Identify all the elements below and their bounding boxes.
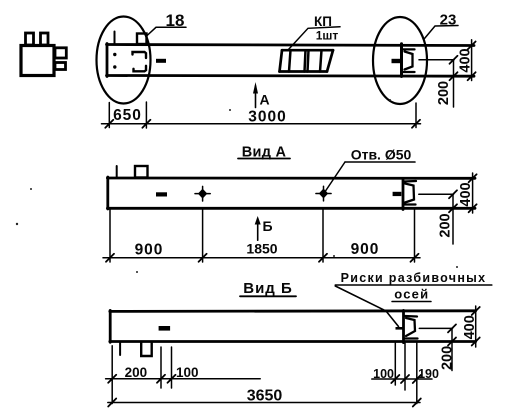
view B title underline xyxy=(240,295,296,297)
section view side lug upper xyxy=(55,48,66,58)
tick xyxy=(401,375,409,383)
svg-text:400: 400 xyxy=(457,48,473,72)
svg-text:осей: осей xyxy=(394,287,429,302)
view A beam right end xyxy=(402,180,405,210)
top view embedded dot lower xyxy=(113,65,116,68)
view B bottom lug xyxy=(141,342,152,356)
svg-text:Вид А: Вид А xyxy=(242,145,287,161)
tick xyxy=(468,72,476,80)
view B end recess keystone xyxy=(406,318,415,336)
view B dim line right xyxy=(372,378,432,380)
hole marker star 2 xyxy=(316,186,331,201)
hole marker star 1 xyxy=(195,186,210,201)
view B weld dash xyxy=(159,326,171,331)
svg-text:900: 900 xyxy=(135,242,164,259)
tick xyxy=(448,338,456,346)
view B extension left end xyxy=(111,346,113,404)
view A beam top edge xyxy=(107,177,475,180)
top view end anchor block xyxy=(392,59,401,63)
tick xyxy=(157,375,165,383)
top view embedded dot upper xyxy=(113,53,116,56)
view A extension 1850 xyxy=(322,210,324,263)
svg-text:200: 200 xyxy=(125,365,148,380)
svg-text:А: А xyxy=(260,92,270,108)
top view left top tick xyxy=(114,32,116,45)
tick xyxy=(450,56,458,64)
view B extension riska xyxy=(416,343,418,404)
dim 200 vertical top view xyxy=(453,60,455,107)
riski label underline 1 xyxy=(335,284,492,286)
view B beam top edge xyxy=(110,309,476,312)
svg-text:Вид Б: Вид Б xyxy=(243,280,293,297)
view A weld dash xyxy=(156,192,167,196)
svg-text:100: 100 xyxy=(176,365,199,380)
svg-text:190: 190 xyxy=(418,367,439,381)
svg-text:Риски разбивочных: Риски разбивочных xyxy=(341,271,487,285)
beam top view top edge xyxy=(107,45,475,46)
riski label underline 2 xyxy=(392,301,431,303)
view B extension beam end xyxy=(404,343,406,390)
top view left top lug xyxy=(137,34,147,45)
lifting wedge rib 4 xyxy=(320,50,322,71)
svg-text:400: 400 xyxy=(462,315,478,339)
svg-text:100: 100 xyxy=(373,367,394,381)
hole callout leader xyxy=(326,162,346,191)
view A top tick xyxy=(116,166,118,178)
tick xyxy=(472,338,480,346)
tick xyxy=(413,399,421,407)
dim line 400 top view xyxy=(471,40,473,81)
view B beam bottom edge xyxy=(110,340,476,343)
extension line left 650 xyxy=(108,103,110,128)
tick xyxy=(413,375,421,383)
view A extension left xyxy=(109,210,111,263)
view A beam left end xyxy=(106,177,109,209)
scan specks xyxy=(229,109,231,111)
view B extension 100 right xyxy=(394,343,396,385)
view B end recess top bar xyxy=(405,315,417,318)
view A dim line xyxy=(103,257,420,259)
hole callout underline xyxy=(345,161,415,163)
callout 23 leader xyxy=(425,26,459,39)
view A dim 200 mid line xyxy=(419,193,454,195)
top view embedded plate bottom bracket xyxy=(134,66,147,72)
top view embedded plate top bracket xyxy=(133,52,147,58)
dim line 3650 xyxy=(108,402,420,404)
svg-text:1шт: 1шт xyxy=(316,29,339,43)
tick xyxy=(319,254,327,262)
svg-text:18: 18 xyxy=(166,11,185,30)
tick xyxy=(199,254,207,262)
view B dim 400 line xyxy=(475,306,477,347)
section view body xyxy=(21,46,54,76)
svg-text:200: 200 xyxy=(437,213,453,237)
view B end recess bottom bar xyxy=(405,337,418,339)
lifting wedge KP left edge xyxy=(280,50,283,71)
dim line 650-3000 xyxy=(102,123,421,125)
lifting wedge KP top line xyxy=(282,49,333,52)
view A end anchor block xyxy=(393,192,402,196)
svg-text:650: 650 xyxy=(113,107,142,124)
detail ellipse 18 xyxy=(97,17,151,104)
tick xyxy=(106,254,114,262)
svg-text:3650: 3650 xyxy=(247,388,283,405)
svg-text:200: 200 xyxy=(436,81,452,105)
svg-text:Отв. Ø50: Отв. Ø50 xyxy=(351,147,412,163)
tick xyxy=(105,120,113,128)
view B extension 200 xyxy=(160,347,162,388)
lifting wedge KP bottom line xyxy=(280,70,328,73)
view B beam right end xyxy=(402,310,405,342)
view A extension 900 xyxy=(202,210,204,263)
view A title underline xyxy=(238,158,290,160)
view B dim line left xyxy=(106,378,261,380)
svg-text:900: 900 xyxy=(351,241,380,258)
tick xyxy=(448,324,456,332)
section view top lug left xyxy=(26,33,34,45)
callout KP leader xyxy=(288,27,340,50)
section arrow A xyxy=(255,86,257,108)
view A end recess bottom bar xyxy=(403,203,416,205)
top view weld dash xyxy=(156,59,166,63)
svg-text:1850: 1850 xyxy=(246,241,277,257)
detail ellipse 23 xyxy=(373,17,427,104)
view B beam left end xyxy=(109,310,112,342)
svg-text:23: 23 xyxy=(440,12,457,29)
view A beam bottom edge xyxy=(107,207,475,210)
lifting wedge rib 1 xyxy=(289,50,291,71)
tick xyxy=(449,190,457,198)
beam top view left end xyxy=(106,44,109,77)
view B dim 200 vertical xyxy=(451,328,453,370)
view B dim 200 mid line xyxy=(419,327,452,329)
tick xyxy=(450,72,458,80)
section arrow B xyxy=(257,219,259,241)
view A extension right xyxy=(414,210,416,263)
lifting wedge KP right edge xyxy=(327,50,333,71)
callout 18 leader xyxy=(146,27,186,36)
view A top lug xyxy=(135,166,148,178)
tick xyxy=(108,399,116,407)
extension stub 650 right xyxy=(145,102,147,128)
tick xyxy=(411,254,419,262)
extension line 3000 right xyxy=(415,103,417,128)
tick xyxy=(391,375,399,383)
riski leader xyxy=(335,286,398,327)
tick xyxy=(142,120,150,128)
view A end recess top bar xyxy=(404,180,416,183)
svg-text:Б: Б xyxy=(263,218,273,234)
riska mark at leader tip xyxy=(396,327,403,330)
view A end recess keystone xyxy=(405,184,414,203)
view B extension 100 left xyxy=(171,347,173,388)
tick xyxy=(449,204,457,212)
section view top lug right xyxy=(41,33,49,45)
beam top view bottom edge xyxy=(107,74,475,77)
view A dim 200 vertical xyxy=(452,194,454,244)
top view end recess top bar xyxy=(403,48,415,50)
beam top view right end xyxy=(400,44,403,77)
tick xyxy=(468,42,476,50)
svg-text:400: 400 xyxy=(458,182,474,206)
svg-text:КП: КП xyxy=(314,14,332,29)
tick xyxy=(168,375,176,383)
tick xyxy=(469,204,477,212)
view B bottom tick xyxy=(119,342,121,355)
tick xyxy=(472,307,480,315)
top view end recess bottom bar xyxy=(403,71,415,73)
tick xyxy=(469,174,477,182)
svg-text:200: 200 xyxy=(439,346,455,370)
section view side lug lower xyxy=(55,63,66,70)
lifting wedge rib 3 xyxy=(308,50,309,71)
lifting wedge rib 2 xyxy=(305,50,306,71)
dim 200 mid line top view xyxy=(419,59,454,61)
svg-text:3000: 3000 xyxy=(248,109,286,126)
tick xyxy=(108,375,116,383)
top view end recess keystone xyxy=(405,52,413,70)
view A dim 400 line xyxy=(472,173,474,213)
tick xyxy=(412,120,420,128)
